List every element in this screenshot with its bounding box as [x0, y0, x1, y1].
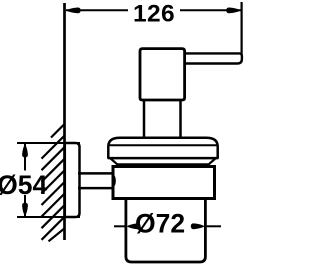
- wall face line / left extension line for 126: [63, 3, 66, 240]
- wall hatching: [42, 124, 65, 241]
- pump spout: [183, 53, 242, 63]
- arrow up d54: [22, 144, 28, 157]
- holder ring: [113, 167, 215, 199]
- collar skirt: [108, 157, 217, 165]
- svg-text:Ø72: Ø72: [135, 209, 185, 239]
- glass bottle: [126, 197, 205, 262]
- arrow left 126: [66, 7, 81, 13]
- arrow right d72: [191, 223, 205, 229]
- technical drawing: wall-mounted soap dispenser with holder: [0, 0, 246, 272]
- pump head: [140, 49, 185, 100]
- svg-text:126: 126: [133, 1, 175, 28]
- arrow left d72: [127, 223, 141, 229]
- extension line top for diameter 54: [17, 142, 80, 144]
- arm-ring joint bump: [114, 175, 116, 187]
- arrow down d54: [22, 203, 28, 216]
- right extension line for 126: [241, 2, 243, 55]
- extension line bottom for diameter 54: [17, 216, 80, 218]
- dimension line 126: [66, 9, 241, 11]
- collar (bottle shoulder): [108, 138, 217, 158]
- holder arm: [78, 173, 112, 188]
- arrow right 126: [226, 7, 241, 13]
- collar inner rim line: [109, 144, 218, 146]
- svg-text:Ø54: Ø54: [0, 170, 48, 200]
- dimension line diameter 54: [24, 144, 26, 216]
- dimension line diameter 72: [114, 225, 221, 227]
- pump neck: [144, 99, 181, 139]
- rosette (wall plate): [65, 143, 80, 217]
